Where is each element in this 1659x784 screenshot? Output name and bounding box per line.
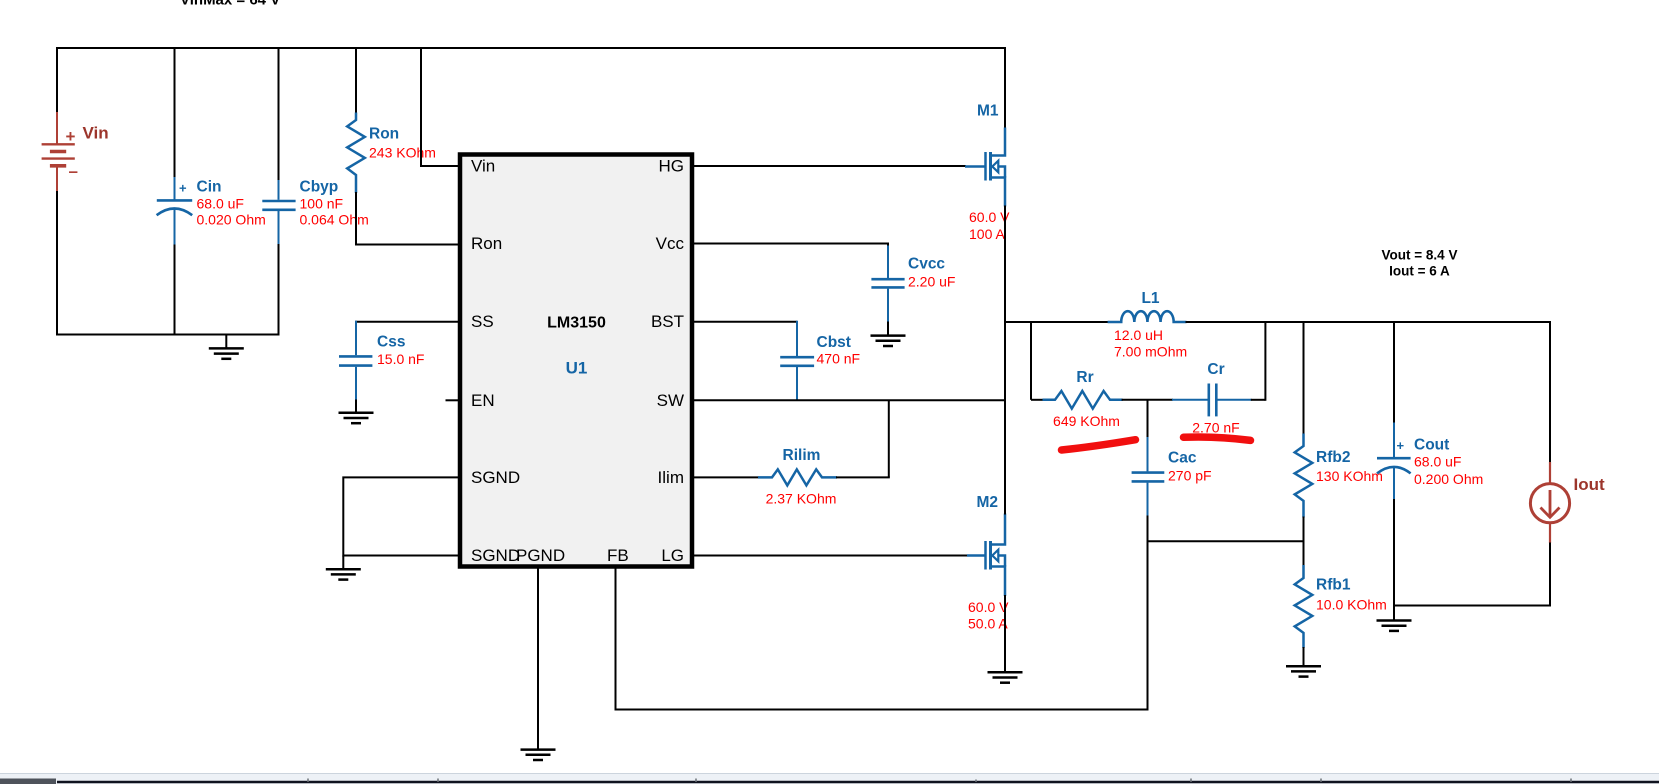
svg-text:SS: SS	[471, 312, 494, 331]
ground M2	[988, 672, 1023, 682]
wire M1 drain from top rail	[1004, 47, 1006, 129]
svg-text:PGND: PGND	[516, 546, 565, 565]
capacitor Cvcc	[871, 246, 904, 323]
capacitor Css	[339, 321, 372, 400]
svg-text:L1: L1	[1141, 290, 1159, 307]
svg-text:Cin: Cin	[197, 179, 222, 196]
wire Iout top lead	[1549, 321, 1551, 463]
svg-text:10.0 KOhm: 10.0 KOhm	[1316, 597, 1387, 613]
wire battery top lead	[56, 47, 58, 113]
wire ripple rail middle	[1122, 399, 1173, 401]
wire SW pin to switch node	[692, 399, 1006, 401]
svg-text:BST: BST	[651, 312, 684, 331]
wire Vout rail	[1186, 321, 1551, 323]
svg-text:HG: HG	[659, 157, 685, 176]
svg-text:Vin: Vin	[471, 157, 495, 176]
wire Rfb1 ground stub	[1303, 647, 1305, 666]
svg-text:60.0 V: 60.0 V	[969, 209, 1010, 225]
svg-text:Cac: Cac	[1168, 450, 1197, 467]
wire Rfb2 to Rfb1	[1303, 517, 1305, 567]
battery Vin	[42, 112, 75, 192]
wire M2 drain from SW node	[1004, 322, 1006, 515]
svg-text:68.0 uF: 68.0 uF	[197, 195, 244, 211]
svg-text:Iout = 6 A: Iout = 6 A	[1389, 263, 1450, 278]
IC U1 LM3150	[460, 155, 692, 567]
wire Vin branch to Vin pin	[421, 47, 459, 166]
wire Cin top lead	[174, 47, 176, 178]
svg-text:Cr: Cr	[1207, 361, 1224, 378]
wire SGND ground stub	[342, 556, 344, 570]
svg-text:12.0 uH: 12.0 uH	[1114, 327, 1163, 343]
svg-text:Cbst: Cbst	[817, 334, 851, 351]
wire SGND loop	[343, 477, 459, 555]
wire Ron bottom lead to Ron pin	[356, 192, 459, 245]
svg-text:SW: SW	[657, 391, 684, 410]
wire Cbyp top lead	[278, 47, 280, 181]
wire Cac bottom lead	[1147, 516, 1149, 543]
svg-text:LG: LG	[661, 546, 684, 565]
wire Ilim pin lead	[692, 476, 759, 478]
capacitor Cbyp	[262, 180, 295, 245]
svg-text:+: +	[179, 181, 187, 196]
svg-text:FB: FB	[607, 546, 629, 565]
pin stub EN	[446, 399, 460, 401]
wire LG pin to M2 gate	[692, 555, 968, 557]
wire ripple left branch	[1030, 321, 1032, 400]
svg-text:270 pF: 270 pF	[1168, 467, 1212, 483]
capacitor Cbst	[780, 321, 814, 400]
svg-text:0.200 Ohm: 0.200 Ohm	[1414, 471, 1483, 487]
svg-text:Rfb2: Rfb2	[1316, 449, 1350, 466]
wire Cvcc ground stub	[887, 322, 889, 336]
transistor M2	[967, 514, 1005, 597]
capacitor Cac	[1132, 437, 1165, 517]
wire FB to feedback node	[616, 540, 1148, 709]
wire Iout bottom lead	[1549, 543, 1551, 607]
wire BST pin to Cbst	[692, 321, 797, 323]
wire ripple right branch	[1264, 321, 1266, 401]
wire feedback node horizontal	[1148, 540, 1304, 542]
svg-text:+: +	[66, 127, 76, 146]
svg-text:Ron: Ron	[471, 234, 502, 253]
wire battery bottom lead	[56, 191, 58, 335]
svg-text:M1: M1	[977, 103, 999, 120]
svg-text:100 nF: 100 nF	[300, 195, 344, 211]
wire Cbyp bottom lead	[278, 244, 280, 336]
ground Cout	[1377, 621, 1412, 631]
svg-text:243 KOhm: 243 KOhm	[369, 145, 436, 161]
svg-text:Cbyp: Cbyp	[300, 179, 339, 196]
svg-text:U1: U1	[566, 359, 588, 378]
wire Rilim to SW	[888, 400, 890, 477]
svg-text:Vin: Vin	[83, 124, 109, 143]
svg-text:SGND: SGND	[471, 468, 520, 487]
wire M2 source to ground	[1004, 595, 1006, 672]
svg-text:M2: M2	[977, 494, 999, 511]
wire M1 source to SW node	[1004, 206, 1006, 324]
svg-text:Cout: Cout	[1414, 436, 1449, 453]
wire HG pin to M1 gate	[692, 165, 966, 167]
resistor Rr	[1043, 391, 1123, 409]
svg-text:LM3150: LM3150	[547, 314, 606, 331]
transistor M1	[965, 128, 1005, 207]
svg-text:7.00 mOhm: 7.00 mOhm	[1114, 343, 1187, 359]
wire PGND gnd stub	[537, 737, 539, 750]
wire ground stub input rail	[225, 335, 227, 349]
resistor Ron	[347, 113, 365, 194]
wire switch node rail to output	[1005, 321, 1108, 323]
ground Rfb1	[1286, 666, 1321, 676]
wire Cin bottom lead	[174, 245, 176, 336]
svg-text:Ron: Ron	[369, 126, 399, 143]
wire ripple rail right	[1251, 399, 1266, 401]
svg-text:0.064 Ohm: 0.064 Ohm	[300, 211, 369, 227]
svg-text:470 nF: 470 nF	[817, 351, 861, 367]
svg-text:2.20 uF: 2.20 uF	[908, 274, 955, 290]
svg-text:Rilim: Rilim	[783, 447, 821, 464]
wire Css ground stub	[355, 400, 357, 413]
wire top Vin rail	[57, 47, 1005, 49]
wire PGND to ground	[537, 569, 539, 738]
svg-text:15.0 nF: 15.0 nF	[377, 351, 424, 367]
ground Cvcc	[871, 336, 906, 346]
resistor Rfb2	[1295, 434, 1313, 518]
svg-text:649 KOhm: 649 KOhm	[1053, 413, 1120, 429]
wire output bottom rail	[1394, 605, 1551, 607]
resistor Rilim	[758, 469, 837, 485]
svg-text:130 KOhm: 130 KOhm	[1316, 468, 1383, 484]
wire input ground rail	[56, 334, 279, 336]
wire Ilim right lead	[836, 476, 890, 478]
ground SGND	[326, 569, 361, 579]
capacitor Cout	[1377, 423, 1411, 501]
wire Cout top lead	[1393, 321, 1395, 424]
wire Ron top lead	[355, 47, 357, 114]
svg-text:Vout = 8.4 V: Vout = 8.4 V	[1382, 247, 1458, 262]
svg-text:EN: EN	[471, 391, 495, 410]
svg-text:+: +	[1397, 438, 1405, 453]
svg-text:2.70 nF: 2.70 nF	[1192, 419, 1239, 435]
wire Cac top lead	[1147, 400, 1149, 438]
wire ripple rail left	[1031, 399, 1044, 401]
wire Cout bottom lead	[1393, 499, 1395, 607]
svg-text:60.0 V: 60.0 V	[968, 599, 1009, 615]
svg-text:2.37 KOhm: 2.37 KOhm	[766, 491, 837, 507]
svg-text:100 A: 100 A	[969, 226, 1005, 242]
ground input rail	[209, 348, 244, 358]
svg-text:Css: Css	[377, 334, 405, 351]
svg-text:VinMax = 64 V: VinMax = 64 V	[180, 0, 280, 9]
svg-text:SGND: SGND	[471, 546, 520, 565]
svg-text:50.0 A: 50.0 A	[968, 616, 1008, 632]
resistor Rfb1	[1295, 565, 1313, 648]
ground Css	[339, 413, 374, 423]
current source Iout	[1530, 462, 1569, 543]
svg-text:Rfb1: Rfb1	[1316, 577, 1351, 594]
svg-text:0.020 Ohm: 0.020 Ohm	[197, 211, 266, 227]
bottom status strip	[0, 773, 1659, 784]
ground PGND	[521, 750, 556, 760]
red annotation scribble under Rr	[1062, 440, 1136, 450]
wire SS pin	[355, 321, 459, 323]
svg-text:–: –	[69, 162, 78, 181]
wire Rfb2 top lead	[1303, 321, 1305, 435]
wire Vcc pin to Cvcc	[692, 244, 888, 248]
svg-text:Vcc: Vcc	[656, 234, 685, 253]
capacitor Cin	[157, 177, 193, 246]
svg-text:68.0 uF: 68.0 uF	[1414, 454, 1461, 470]
red annotation scribble under Cr value	[1184, 437, 1251, 440]
svg-text:Iout: Iout	[1574, 475, 1605, 494]
wire Cout ground stub	[1393, 606, 1395, 621]
capacitor Cr	[1172, 384, 1252, 417]
svg-text:Ilim: Ilim	[658, 468, 684, 487]
svg-text:Rr: Rr	[1076, 369, 1093, 386]
inductor L1	[1108, 311, 1187, 322]
svg-text:Cvcc: Cvcc	[908, 256, 945, 273]
